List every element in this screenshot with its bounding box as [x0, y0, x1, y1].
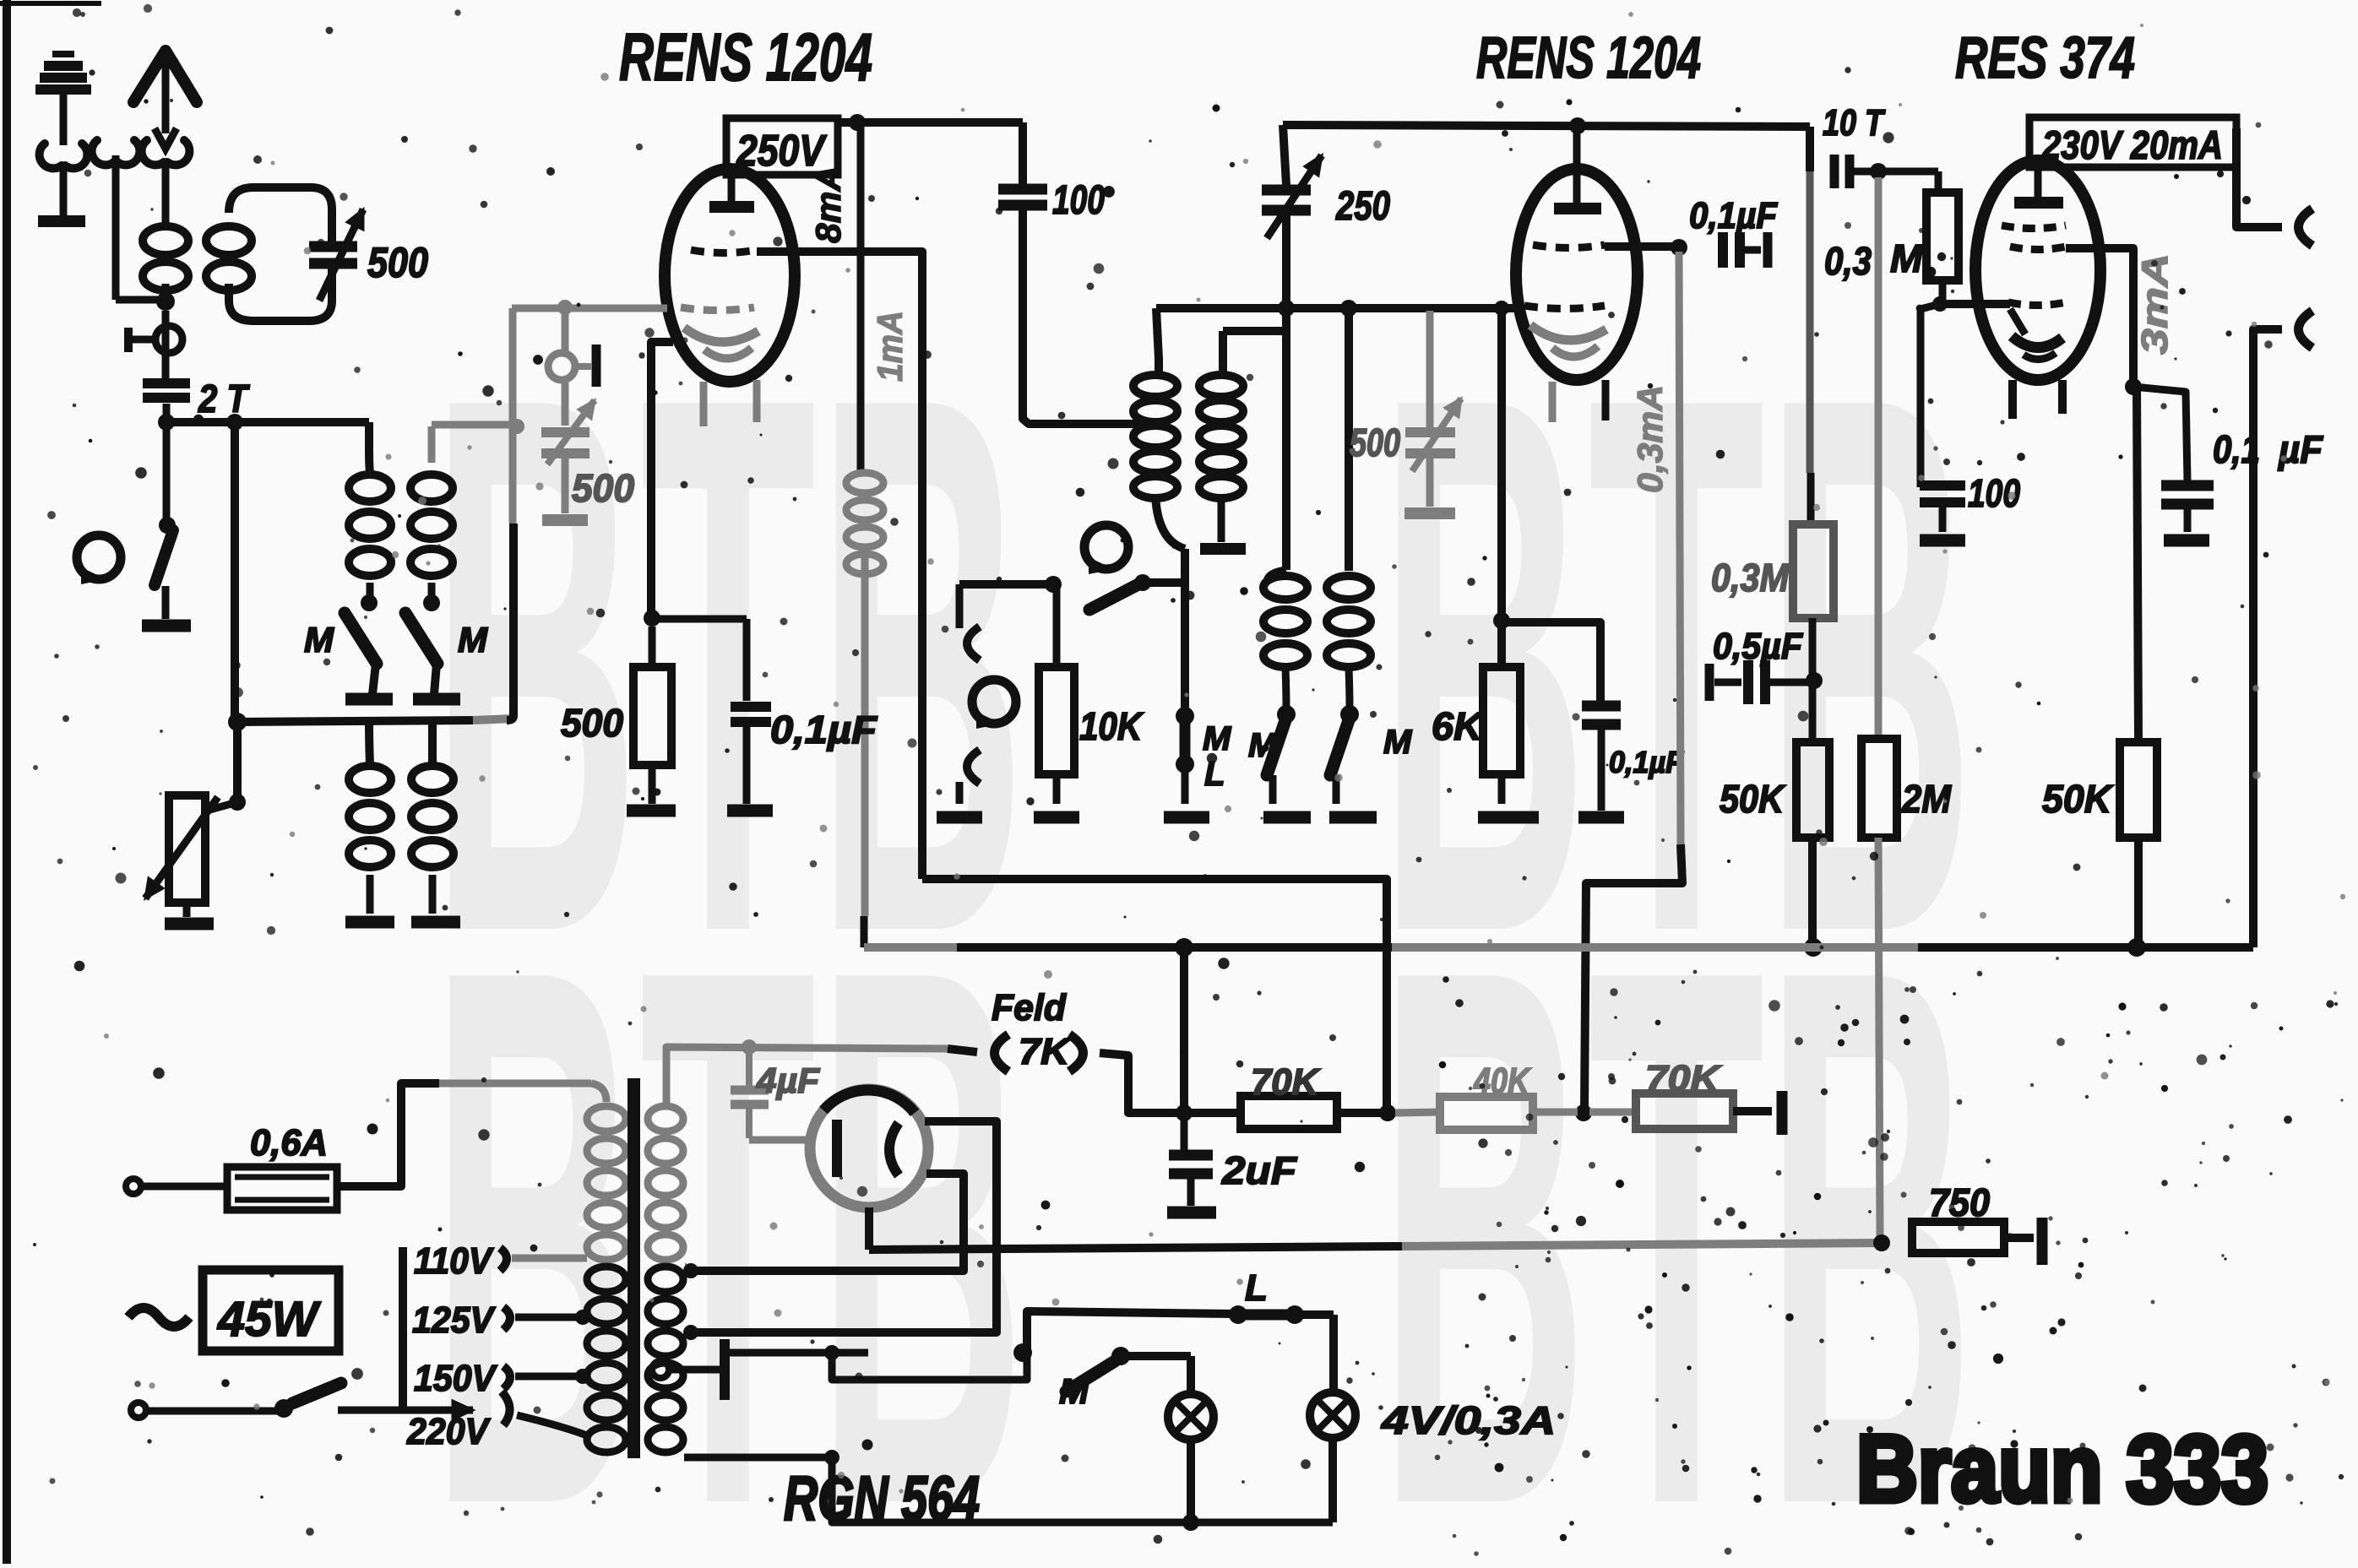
- earth electrode symbol: [35, 54, 91, 145]
- label 125V: [412, 1299, 590, 1341]
- gray ground bar (500 V2): [1404, 507, 1455, 519]
- resistor 750: [1912, 1218, 2042, 1265]
- gray cap 500 (V2) arrow: [1412, 399, 1461, 471]
- lamp switch blade M: [1066, 1361, 1115, 1392]
- gray wire 2M top: [1875, 177, 1883, 739]
- wire V2 grid to cap: [1605, 242, 1676, 251]
- node dot 70K left: [1379, 1104, 1396, 1121]
- svg-text:150V: 150V: [414, 1358, 497, 1399]
- label 0,1uF (cathode C): [770, 708, 878, 751]
- resistor 70K (right, gray): [1636, 1093, 1733, 1129]
- contact dot (rotary): [1134, 574, 1151, 591]
- gray node dot (trimmer tap): [557, 300, 573, 315]
- label 70K (right): [1645, 1058, 1723, 1099]
- gray secondary top wire: [666, 1047, 948, 1108]
- field connector hook right: [1069, 1034, 1084, 1072]
- node dot lamp switch: [1013, 1343, 1032, 1362]
- wire screen to 50K: [2137, 387, 2138, 742]
- L4b bottom terminal: [411, 875, 460, 922]
- svg-text:500: 500: [367, 239, 428, 286]
- mains transformer core: [628, 1078, 640, 1458]
- capacitor 0.5uF plates: [1709, 660, 1807, 704]
- rotary switch 2 blade: [1045, 576, 1138, 610]
- HT rail (black segment 1): [957, 943, 1392, 952]
- gray wire L3b top to AVC: [432, 421, 517, 429]
- tube V2 screen dashes: [1524, 306, 1605, 309]
- svg-text:230V 20mA: 230V 20mA: [2041, 122, 2223, 167]
- label 150V: [414, 1358, 590, 1399]
- tube V3 screen dashes 2: [2010, 247, 2066, 250]
- wire antenna to 2T cap: [162, 311, 170, 378]
- wire 10T node to 0.3M upper: [1878, 171, 1938, 193]
- svg-text:8mA: 8mA: [808, 165, 848, 243]
- wire lamp loop top: [1027, 1311, 1235, 1353]
- wire V1 grid leak loop: [922, 879, 1387, 1110]
- L4a bottom terminal: [345, 875, 394, 922]
- tube V3 envelope: [1975, 160, 2100, 380]
- mains terminal 1: [126, 1179, 227, 1194]
- svg-text:40K: 40K: [1473, 1061, 1531, 1102]
- label M (IF2 left): [1248, 727, 1278, 764]
- wire 2T to node row: [163, 404, 171, 422]
- label RENS 1204 (tube V2): [1476, 24, 1701, 90]
- gray wire 500cap to ground: [562, 458, 569, 513]
- dial lamp 2: [1310, 1392, 1356, 1522]
- wire rectifier to HT row: [865, 1207, 873, 1250]
- mains transformer secondary winding: [648, 1106, 683, 1452]
- variable cap 250 arrow: [1267, 155, 1322, 238]
- capacitor 0.1uF (V2 grid): [1723, 232, 1768, 268]
- hub junction dot: [228, 713, 247, 731]
- IF1 left coil bottom to switch: [1155, 494, 1185, 549]
- jack hook lower: [959, 750, 980, 804]
- label 0,6A: [250, 1122, 328, 1164]
- tube V3 screen dashes 1: [2002, 225, 2066, 229]
- svg-text:M: M: [304, 620, 334, 659]
- svg-text:0,6A: 0,6A: [250, 1122, 328, 1164]
- ground bar (V2 cathode cap): [1578, 811, 1624, 824]
- gray cap 500 (V2) stem: [1426, 363, 1434, 507]
- resistor 10K: [1039, 584, 1074, 804]
- band coil L3a: [349, 475, 391, 576]
- earth terminal bar: [38, 215, 85, 227]
- svg-text:750: 750: [1929, 1180, 1990, 1224]
- label 1mA (rotated, gray): [870, 311, 910, 382]
- antenna jack Y-cup: [142, 140, 190, 213]
- ground bar (IF2 R): [1329, 775, 1377, 817]
- node dot V1 anode bus: [849, 114, 866, 131]
- gray wire 4uF to rectifier: [749, 1137, 809, 1144]
- switch contact dot C: [159, 517, 176, 534]
- label 0,3 M: [1824, 236, 1924, 283]
- label 0,5uF: [1713, 626, 1803, 667]
- box 230V 20mA: [2029, 117, 2236, 167]
- watermark BTB blocks: [431, 237, 1975, 1568]
- capacitor 10T plates: [1834, 155, 1850, 188]
- resistor 0.3M (upper): [1926, 193, 1959, 280]
- tube V1 anode: [709, 175, 754, 207]
- label 10 T: [1823, 102, 1886, 144]
- svg-text:500: 500: [1350, 420, 1400, 464]
- hub row wire: [237, 719, 513, 722]
- capacitor 100 (V3 grid) plates: [1920, 478, 1965, 502]
- wire V1 grid right and down: [757, 252, 922, 879]
- capacitor 4uF (gray): [731, 1047, 769, 1138]
- field connector hook left: [995, 1034, 1009, 1072]
- scan border left edge: [0, 0, 101, 1564]
- label M (lamp switch): [1059, 1371, 1089, 1411]
- wire node B down to hub: [231, 422, 239, 722]
- node dot 4uF (gray): [742, 1039, 757, 1055]
- mains terminal 2: [131, 1403, 279, 1418]
- IF1 secondary bottom terminal: [1200, 494, 1246, 549]
- aux jack Y-cup: [92, 140, 140, 165]
- potentiometer terminal: [165, 903, 214, 924]
- label M (right): [458, 620, 488, 659]
- wire 70K to node: [1337, 1109, 1388, 1117]
- label RES 374 (tube V3): [1955, 24, 2135, 90]
- IF2 right contact: [1340, 667, 1359, 724]
- wire field connector down: [1100, 1053, 1181, 1113]
- wire aux jack down: [116, 155, 162, 300]
- heater wire upper: [728, 1316, 1027, 1380]
- IF2 left coil: [1263, 570, 1307, 667]
- node dot 50K right rail: [2127, 938, 2146, 957]
- label 4V/0,3A: [1381, 1398, 1556, 1442]
- svg-text:Feld: Feld: [992, 987, 1067, 1028]
- wire V2 grid return (gray): [1584, 252, 1682, 1110]
- svg-text:0,5µF: 0,5µF: [1713, 626, 1803, 667]
- HT rail (black segment 2): [1918, 943, 2253, 952]
- svg-text:RES 374: RES 374: [1955, 24, 2135, 90]
- ground bar (10K): [1034, 811, 1079, 824]
- HT rail (gray segment mid): [1392, 943, 1918, 952]
- tube V2 envelope: [1516, 169, 1638, 380]
- resistor 6K: [1483, 612, 1520, 804]
- HT output row: [869, 1243, 1878, 1250]
- wire 6K from row: [1494, 301, 1509, 667]
- wire anode feed down: [857, 122, 865, 473]
- tube V1 screen dashes (gray): [681, 307, 754, 311]
- tube V2 anode: [1554, 126, 1601, 209]
- rectifier filament bar: [832, 1120, 842, 1177]
- label 750: [1929, 1180, 1990, 1224]
- svg-text:2uF: 2uF: [1221, 1148, 1298, 1192]
- wire 70K right to terminal: [1733, 1091, 1782, 1135]
- capacitor 0.1uF (output) plates: [2161, 486, 2214, 504]
- gray node dot AVC: [509, 419, 524, 434]
- tube V1 envelope: [665, 169, 795, 382]
- label RENS 1204 (tube V1): [619, 19, 872, 95]
- mains switch blade: [292, 1383, 341, 1403]
- label 2T: [198, 377, 250, 420]
- potentiometer arrow: [145, 797, 218, 898]
- wire output hook 2: [2253, 311, 2312, 947]
- ground bar (0.1uF): [727, 805, 773, 817]
- svg-text:220V: 220V: [406, 1411, 491, 1452]
- IF1 primary coil: [1133, 375, 1177, 498]
- resistor 40K (gray): [1440, 1097, 1533, 1130]
- resistor 50K (right): [2120, 742, 2157, 838]
- wire switch column: [1143, 549, 1185, 714]
- node dot B: [226, 414, 243, 431]
- node dot 0.5uF: [1806, 672, 1823, 689]
- wire 2M down to 750 row: [1878, 838, 1880, 1240]
- gray wire 40K to node: [1533, 1109, 1578, 1116]
- label 50K (right): [2042, 777, 2114, 821]
- wire rectifier plate loop: [683, 1121, 997, 1340]
- mains switch dot: [274, 1399, 293, 1418]
- label 0,1uF (V2): [1689, 195, 1778, 236]
- potentiometer R1: [169, 795, 205, 903]
- svg-text:2 T: 2 T: [198, 377, 250, 420]
- terminal bar under blade L: [345, 664, 393, 699]
- wire 6K node to cathode cap: [1502, 622, 1600, 701]
- switch blade (IF2 L): [1267, 718, 1286, 775]
- IF1 secondary top lead: [1223, 331, 1286, 375]
- switch blade M right: [405, 613, 437, 664]
- label M L: [1203, 720, 1232, 793]
- label 3mA (rotated gray): [2134, 253, 2176, 355]
- label Feld: [992, 987, 1067, 1028]
- node dot cathode: [644, 610, 660, 627]
- svg-text:2M: 2M: [1901, 777, 1952, 821]
- node dot 2uF: [1176, 1104, 1193, 1121]
- caption Braun 333: [1856, 1416, 2268, 1522]
- svg-text:RENS 1204: RENS 1204: [619, 19, 872, 95]
- trimmer capacitor (antenna): [127, 326, 182, 353]
- label 10K: [1079, 704, 1144, 748]
- tube V2 grid dashes: [1533, 245, 1605, 248]
- svg-text:0,1µF: 0,1µF: [1609, 745, 1684, 779]
- node dot V2 grid: [1671, 239, 1687, 256]
- node dot rail field: [1175, 938, 1193, 957]
- svg-text:M: M: [1383, 724, 1413, 761]
- label 2M: [1901, 777, 1952, 821]
- wire screen to 0.1uF: [2133, 387, 2187, 481]
- node: antenna junction: [156, 292, 175, 311]
- dial lamp 1: [1168, 1394, 1214, 1531]
- tube V1 grid dashes: [691, 250, 757, 253]
- wire choke down to HT rail (gray): [864, 557, 865, 947]
- wire node A to switch: [163, 422, 171, 522]
- gray wire node to 70K right: [1589, 1109, 1636, 1116]
- label 2uF: [1221, 1148, 1298, 1192]
- svg-text:0,1µF: 0,1µF: [770, 708, 878, 751]
- antenna coil L1: [143, 213, 188, 300]
- svg-text:M: M: [1890, 236, 1924, 280]
- box 45W: [203, 1270, 339, 1351]
- tube V3 grid dashes: [2008, 302, 2066, 306]
- wire V3 screen right: [2066, 248, 2133, 383]
- tuned circuit loop wire: [229, 187, 332, 321]
- svg-text:3mA: 3mA: [2134, 253, 2176, 355]
- label 50K (left): [1720, 777, 1785, 821]
- wire hub to potentiometer: [207, 722, 246, 811]
- label 0,1 uF (output): [2213, 427, 2324, 471]
- label 250 (var cap): [1335, 184, 1390, 229]
- svg-text:Braun 333: Braun 333: [1856, 1416, 2268, 1522]
- label 500 (gray cap): [572, 466, 634, 510]
- svg-text:110V: 110V: [414, 1240, 494, 1282]
- switch contact dot (L3b): [423, 583, 440, 611]
- node dot 10T: [1870, 163, 1887, 180]
- terminal bar under blade R: [413, 664, 460, 699]
- ground bar (M/L): [1164, 764, 1209, 817]
- label 110V: [414, 1240, 587, 1282]
- rectifier anode arc: [889, 1123, 899, 1175]
- capacitor 100pF plates: [998, 189, 1047, 205]
- node dot grid return: [1575, 1104, 1592, 1121]
- svg-text:50K: 50K: [2042, 777, 2114, 821]
- label 100 (V3): [1968, 471, 2020, 515]
- tube V2 cathode arcs: [1530, 325, 1606, 357]
- IF2 right coil: [1327, 576, 1371, 667]
- label 100 (top cap): [1052, 178, 1105, 223]
- IF1 secondary coil: [1199, 375, 1243, 498]
- variable capacitor C1 arrow: [319, 209, 363, 301]
- lamp switch contact: [1111, 1347, 1191, 1395]
- IF2 right coil lead: [1345, 308, 1353, 571]
- capacitor 0.1uF (cathode): [731, 619, 771, 804]
- svg-text:6K: 6K: [1432, 704, 1485, 748]
- wire 50K right to rail: [2134, 838, 2143, 947]
- wire fuse to lamp2: [1329, 1315, 1338, 1393]
- tube V2 heater legs: [1552, 380, 1606, 422]
- osc coil L4b: [411, 766, 454, 867]
- switch blade (IF2 R): [1330, 718, 1350, 775]
- svg-text:10K: 10K: [1079, 704, 1144, 748]
- rotary switch ring: [77, 535, 121, 584]
- node dot screen: [2125, 378, 2142, 395]
- resistor 70K (mid): [1241, 1096, 1337, 1129]
- label 4uF: [756, 1061, 820, 1100]
- earth jack Y-cup: [40, 144, 88, 215]
- wire switch to 220V tap: [338, 1392, 591, 1437]
- label 7K: [1019, 1031, 1072, 1072]
- resistor 2M: [1861, 739, 1897, 838]
- node row wire (V1-V2): [1156, 304, 1520, 312]
- band coil L3b (half gray): [410, 426, 453, 576]
- IF2 left contact: [1277, 667, 1296, 724]
- wire to 70K: [1184, 1109, 1241, 1117]
- label 220V: [406, 1411, 491, 1452]
- pickup jack circle: [972, 680, 1016, 729]
- IF2 left coil lead: [1282, 308, 1290, 570]
- label M (IF2 right): [1383, 724, 1413, 761]
- rotary switch blade: [155, 530, 173, 585]
- HT rail (gray segment left): [864, 943, 957, 952]
- ground bar (500R): [627, 805, 676, 817]
- svg-text:0,3: 0,3: [1824, 239, 1872, 283]
- wire bus corner to 10T: [1806, 127, 1814, 171]
- wire hub to lower coils: [369, 722, 432, 764]
- label 6K: [1432, 704, 1485, 748]
- variable capacitor C1 500pF plates: [309, 247, 357, 263]
- label ~ (AC): [128, 1308, 189, 1327]
- svg-text:BTB: BTB: [431, 810, 1026, 1564]
- wire 250cap down to row: [1282, 210, 1290, 308]
- gray variable cap 500 (V2) plates: [1405, 432, 1455, 453]
- svg-text:70K: 70K: [1645, 1058, 1723, 1099]
- heater center tap: [652, 1339, 725, 1400]
- label 0,3M (gray): [1711, 556, 1790, 600]
- wire field tap down: [1180, 947, 1188, 1110]
- rectifier tube circle (gray): [810, 1089, 928, 1207]
- gray AVC vertical: [507, 308, 513, 720]
- svg-text:100: 100: [1052, 178, 1105, 223]
- label 40K (gray): [1473, 1061, 1531, 1102]
- svg-text:M: M: [1059, 1371, 1089, 1411]
- label 70K (mid): [1251, 1061, 1321, 1103]
- svg-text:70K: 70K: [1251, 1061, 1321, 1103]
- jack hook upper: [959, 584, 980, 660]
- gray link 500cap to row: [1426, 311, 1434, 363]
- svg-text:125V: 125V: [412, 1299, 496, 1341]
- svg-text:50K: 50K: [1720, 777, 1785, 821]
- M/L switch dots: [1176, 707, 1194, 773]
- ground bar (100 V3): [1920, 501, 1965, 540]
- svg-text:10 T: 10 T: [1823, 102, 1886, 144]
- wire box to output hook 1: [2236, 128, 2312, 246]
- tube V3 heater legs: [2013, 380, 2062, 419]
- HT bus left section: [838, 118, 1023, 127]
- gray screen wire V1: [512, 305, 667, 312]
- node dot 50K rail: [1804, 938, 1823, 957]
- label 500 (gray, V2): [1350, 420, 1400, 464]
- svg-text:4µF: 4µF: [756, 1061, 820, 1100]
- fuse 0.6A: [227, 1167, 337, 1210]
- capacitor 0.1uF (V2 cathode): [1582, 706, 1621, 811]
- svg-text:0,1µF: 0,1µF: [1689, 195, 1778, 236]
- node dot V3 grid: [1932, 296, 1948, 312]
- svg-text:0,3M: 0,3M: [1711, 556, 1790, 600]
- label 500 (cathode R): [561, 701, 623, 745]
- svg-text:4V/0,3A: 4V/0,3A: [1381, 1398, 1556, 1442]
- wire V3 grid: [1940, 300, 2010, 308]
- ground bar (0.1uF out): [2164, 504, 2209, 540]
- svg-text:µF: µF: [2277, 427, 2324, 471]
- wire jack row: [959, 580, 1057, 589]
- box 250V: [726, 118, 838, 176]
- fuse L: [1229, 1305, 1334, 1324]
- label M (left): [304, 620, 334, 659]
- ground bar (2uF): [1167, 1207, 1216, 1219]
- resistor 50K (left): [1796, 742, 1829, 838]
- gray ground bar (500 cap): [542, 514, 588, 526]
- svg-text:L: L: [1245, 1267, 1268, 1309]
- resistor 500 (cathode): [633, 627, 671, 804]
- ground bar (jack): [937, 811, 982, 824]
- wire 10T to node: [1850, 168, 1878, 176]
- IF1 left coil top lead: [1156, 308, 1159, 375]
- wire cathode node right: [652, 616, 747, 623]
- label 500 (C1): [367, 239, 428, 286]
- gray variable cap 500 plates: [541, 432, 589, 453]
- svg-text:500: 500: [572, 466, 634, 510]
- series capacitor 2T plates: [143, 383, 190, 398]
- tube V1 heater legs: [704, 380, 757, 426]
- secondary tap stub: [685, 1263, 687, 1271]
- node dot row C: [1278, 300, 1295, 317]
- voltage selector bus: [399, 1247, 407, 1412]
- wire rectifier filament loop: [683, 1174, 964, 1278]
- antenna plug arrowhead: [155, 128, 177, 149]
- svg-text:M: M: [1203, 720, 1232, 757]
- wire row corner into band coil: [369, 422, 370, 473]
- wire 50K to HT rail: [1808, 838, 1817, 947]
- wire fuse to transformer top: [337, 1083, 606, 1186]
